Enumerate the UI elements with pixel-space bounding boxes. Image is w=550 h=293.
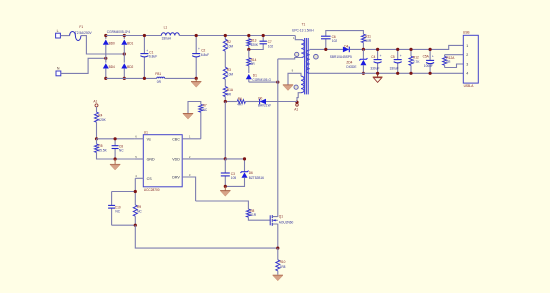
inductor L1: [161, 26, 179, 41]
diode D4: [330, 45, 352, 60]
svg-text:BZT52B16: BZT52B16: [249, 176, 264, 180]
svg-text:BD1: BD1: [127, 41, 133, 45]
wire aux node to D0: [266, 101, 297, 103]
svg-text:R6: R6: [238, 97, 242, 101]
svg-text:+: +: [198, 47, 200, 51]
junction CS bottom: [134, 224, 137, 227]
svg-text:D4: D4: [344, 45, 348, 49]
junction bridge top-left: [104, 34, 107, 37]
wire C10 rails: [112, 192, 136, 226]
svg-text:NC: NC: [119, 149, 124, 153]
svg-text:CGRM4005-G*4: CGRM4005-G*4: [107, 30, 131, 34]
svg-text:+: +: [432, 55, 434, 59]
U1 pin CS: [135, 174, 152, 181]
svg-text:AOU2N60: AOU2N60: [279, 220, 294, 224]
svg-text:C7: C7: [268, 40, 272, 44]
svg-text:A1: A1: [294, 108, 298, 112]
T1 primary winding: [293, 36, 304, 58]
junction R11 bottom: [362, 48, 365, 51]
svg-text:+: +: [146, 49, 148, 53]
ground Vs divider: [110, 159, 120, 170]
junction D6 top: [243, 157, 246, 160]
wire CS to sense: [135, 225, 277, 248]
wire VDD to D6: [225, 159, 244, 172]
svg-text:4: 4: [466, 72, 468, 76]
junction C1 top: [143, 34, 146, 37]
svg-text:R1A: R1A: [227, 88, 234, 92]
resistor R4: [95, 107, 107, 139]
diode BD2: [121, 63, 133, 70]
U1 pin CBC: [172, 135, 201, 142]
svg-text:A1: A1: [93, 100, 97, 104]
diode BD0: [103, 39, 115, 46]
svg-text:NC: NC: [115, 209, 120, 213]
resistor R3: [223, 67, 233, 86]
node A1 (aux): [294, 101, 298, 112]
svg-text:U1: U1: [144, 131, 148, 135]
resistor R2: [223, 36, 233, 68]
svg-text:0R: 0R: [227, 92, 232, 96]
capacitor C6: [321, 31, 363, 50]
svg-text:4R7: 4R7: [237, 103, 243, 107]
svg-text:T2.5A/250V: T2.5A/250V: [75, 31, 93, 35]
svg-text:10M: 10M: [227, 73, 234, 77]
capacitor C1: [140, 36, 157, 79]
svg-text:102: 102: [268, 44, 274, 48]
svg-text:C2: C2: [201, 49, 205, 53]
T1 aux phase dot: [294, 85, 298, 89]
wire bridge right column: [123, 36, 125, 79]
node A1 (divider): [93, 100, 98, 107]
junction C5 top: [396, 48, 399, 51]
junction R2 top: [224, 34, 227, 37]
fuse F1: [70, 25, 93, 40]
junction C5A bottom: [429, 72, 432, 75]
resistor R12: [409, 49, 420, 73]
svg-text:Vs: Vs: [147, 137, 151, 141]
junction C6 bottom: [324, 48, 327, 51]
resistor R9: [133, 178, 142, 225]
junction Vs divider: [95, 137, 98, 140]
svg-text:DRV: DRV: [172, 176, 180, 180]
svg-text:BD4: BD4: [109, 65, 115, 69]
U1 pin GND: [134, 155, 155, 162]
T1 aux top lead to gnd: [288, 73, 301, 85]
resistor R14: [247, 50, 257, 74]
op-amp U1 box: [143, 131, 182, 193]
resistor R6: [237, 97, 245, 106]
T1 secondary phase dot: [314, 54, 319, 59]
svg-text:F1: F1: [79, 25, 83, 29]
svg-text:C5A: C5A: [423, 55, 430, 59]
wire HV- rail (FB1 to gnd): [165, 77, 197, 79]
resistor R12A: [443, 55, 456, 68]
svg-text:ZD4: ZD4: [346, 61, 352, 65]
junction bridge bottom-right: [123, 77, 126, 80]
svg-text:NC: NC: [203, 108, 208, 112]
transistor Q1: [270, 215, 293, 226]
diode D0: [258, 97, 271, 108]
svg-text:2: 2: [466, 53, 468, 57]
svg-text:0R: 0R: [446, 60, 451, 64]
junction N-bridge: [104, 57, 107, 60]
junction ZD4 bottom: [362, 72, 365, 75]
connector USB1: [463, 30, 478, 88]
resistor R13: [247, 36, 259, 50]
capacitor C7: [249, 36, 274, 50]
junction R12 top: [409, 48, 412, 51]
wire N to bridge: [61, 58, 106, 73]
wire secondary bottom rail: [310, 72, 464, 74]
wire source: [277, 224, 279, 248]
ground CBC: [183, 114, 193, 120]
svg-text:R2: R2: [227, 40, 231, 44]
zener D6: [225, 171, 264, 187]
capacitor C2: [192, 36, 209, 79]
svg-text:R3: R3: [227, 68, 231, 72]
wire HV+ rail (L1 to transformer): [179, 35, 295, 37]
svg-text:GND: GND: [147, 157, 155, 161]
svg-text:3: 3: [466, 62, 468, 66]
wire L to fuse: [60, 35, 69, 37]
svg-text:T1: T1: [302, 22, 306, 26]
ground primary bulk: [191, 78, 201, 87]
junction L-bridge: [123, 52, 126, 55]
svg-text:51R: 51R: [250, 213, 257, 217]
zener ZD4: [346, 49, 367, 73]
T1 core: [305, 38, 309, 94]
resistor R10: [276, 248, 286, 275]
wire secondary top: [310, 48, 343, 50]
junction C2 bottom / gnd: [195, 77, 198, 80]
junction bridge top-right: [123, 34, 126, 37]
capacitor C3: [221, 159, 237, 187]
svg-text:100uF: 100uF: [424, 64, 433, 68]
wire Vs: [97, 138, 135, 140]
junction bridge bottom-left: [104, 77, 107, 80]
U1 pin VDD: [172, 155, 225, 162]
svg-text:NC: NC: [137, 209, 142, 213]
svg-text:USB: USB: [463, 30, 470, 34]
svg-text:L: L: [57, 29, 59, 33]
svg-text:N: N: [57, 67, 60, 71]
capacitor C5A: [423, 49, 435, 73]
svg-text:105: 105: [231, 176, 237, 180]
T1 primary phase dot: [295, 52, 299, 56]
wire DRV run: [196, 201, 249, 209]
T1 aux winding: [292, 69, 304, 93]
wire VDD vertical: [224, 102, 226, 159]
capacitor C10: [108, 192, 121, 226]
junction R12 bottom: [409, 72, 412, 75]
svg-text:102: 102: [332, 39, 338, 43]
junction sense node: [276, 247, 279, 250]
svg-text:USB-A: USB-A: [464, 84, 475, 88]
junction C7 top: [262, 34, 265, 37]
ground VDD cap: [220, 186, 230, 196]
port L: [56, 29, 61, 38]
resistor R5: [95, 139, 135, 159]
diode D1: [246, 73, 272, 82]
junction CS top: [134, 190, 137, 193]
svg-text:UCC28700: UCC28700: [144, 188, 160, 192]
wire HV+ rail (bridge to L1): [106, 35, 162, 37]
svg-text:R10: R10: [280, 260, 286, 264]
capacitor C4: [370, 49, 381, 73]
wire D0 to R6: [245, 101, 259, 103]
svg-text:6.8uF: 6.8uF: [201, 53, 209, 57]
junction C8 top: [114, 137, 117, 140]
svg-text:10M: 10M: [227, 45, 234, 49]
junction C2 top: [195, 34, 198, 37]
svg-text:D0: D0: [258, 97, 262, 101]
wire fuse to bridge (L): [81, 36, 124, 54]
junction C8 bottom: [114, 157, 117, 160]
junction VDD pin: [224, 157, 227, 160]
ground secondary: [373, 73, 383, 82]
wire bridge left column: [105, 36, 107, 79]
junction C5A top: [429, 48, 432, 51]
svg-text:L1: L1: [164, 26, 168, 30]
svg-text:330uH: 330uH: [162, 37, 172, 41]
svg-text:C5: C5: [391, 55, 395, 59]
svg-text:BD2: BD2: [127, 65, 133, 69]
svg-text:Q1: Q1: [279, 215, 283, 219]
junction C4 bottom: [376, 72, 379, 75]
wire drain: [277, 59, 279, 217]
junction C5 bottom: [396, 72, 399, 75]
wire HV- rail (bridge to FB1): [106, 77, 157, 79]
junction VDD feed: [224, 100, 227, 103]
ground source: [273, 275, 283, 281]
transformer T1 labels: [292, 22, 314, 32]
svg-text:CBC: CBC: [172, 137, 180, 141]
U1 pin Vs: [134, 135, 151, 142]
svg-text:1: 1: [466, 44, 468, 48]
svg-text:+: +: [380, 54, 382, 58]
svg-text:R4: R4: [98, 113, 102, 117]
svg-text:EPC-13 1.5mH: EPC-13 1.5mH: [292, 28, 314, 32]
capacitor C8: [112, 139, 125, 159]
svg-text:C4: C4: [371, 55, 375, 59]
T1 aux bottom lead: [297, 93, 301, 103]
svg-text:6.8uF: 6.8uF: [149, 55, 157, 59]
svg-text:0R: 0R: [251, 62, 256, 66]
svg-text:120K: 120K: [98, 118, 106, 122]
svg-text:25.5K: 25.5K: [98, 149, 107, 153]
svg-text:330uF: 330uF: [390, 67, 399, 71]
svg-text:330uF: 330uF: [370, 67, 379, 71]
svg-text:BD0: BD0: [109, 41, 115, 45]
junction R13 top: [247, 34, 250, 37]
svg-text:R5: R5: [98, 144, 102, 148]
T1 secondary winding: [306, 50, 309, 73]
ground aux: [283, 85, 293, 91]
wire secondary rail: [350, 45, 464, 49]
ferrite bead FB1: [155, 72, 164, 84]
svg-text:R12: R12: [413, 55, 419, 59]
junction drain-clamp: [276, 81, 279, 84]
resistor R8: [246, 209, 270, 220]
svg-text:D1: D1: [253, 73, 257, 77]
U1 pin DRV: [172, 173, 195, 201]
bridge label CGRM4005-G*4: [107, 30, 131, 34]
T1 primary bottom lead: [278, 58, 302, 59]
resistor R1A: [223, 87, 234, 102]
svg-text:DIODE: DIODE: [346, 65, 356, 69]
wire D1 to drain: [249, 81, 278, 83]
resistor R7: [188, 102, 208, 139]
diode BD1: [121, 39, 133, 46]
svg-text:0R: 0R: [157, 80, 162, 84]
svg-text:FB1: FB1: [155, 72, 161, 76]
svg-text:BAV21W: BAV21W: [258, 103, 271, 107]
svg-text:D6: D6: [249, 171, 253, 175]
svg-text:1R8: 1R8: [280, 265, 286, 269]
wire pin3: [445, 64, 464, 68]
junction C4 top: [376, 48, 379, 51]
junction clamp node: [247, 48, 250, 51]
svg-text:SBR10U45SP5: SBR10U45SP5: [330, 55, 352, 59]
resistor R11: [361, 34, 371, 49]
svg-text:VDD: VDD: [172, 157, 180, 161]
svg-text:50R: 50R: [365, 39, 372, 43]
svg-text:2.7K: 2.7K: [413, 60, 420, 64]
junction C3 bottom: [224, 185, 227, 188]
svg-text:+: +: [400, 54, 402, 58]
capacitor C5: [390, 49, 402, 73]
port N: [56, 67, 61, 76]
junction C1 bottom: [143, 77, 146, 80]
wire pin2: [445, 54, 464, 56]
svg-text:CS: CS: [147, 177, 153, 181]
wire R6 to VDD node: [225, 101, 237, 103]
diode BD4: [103, 63, 115, 70]
svg-text:220K: 220K: [251, 43, 259, 47]
